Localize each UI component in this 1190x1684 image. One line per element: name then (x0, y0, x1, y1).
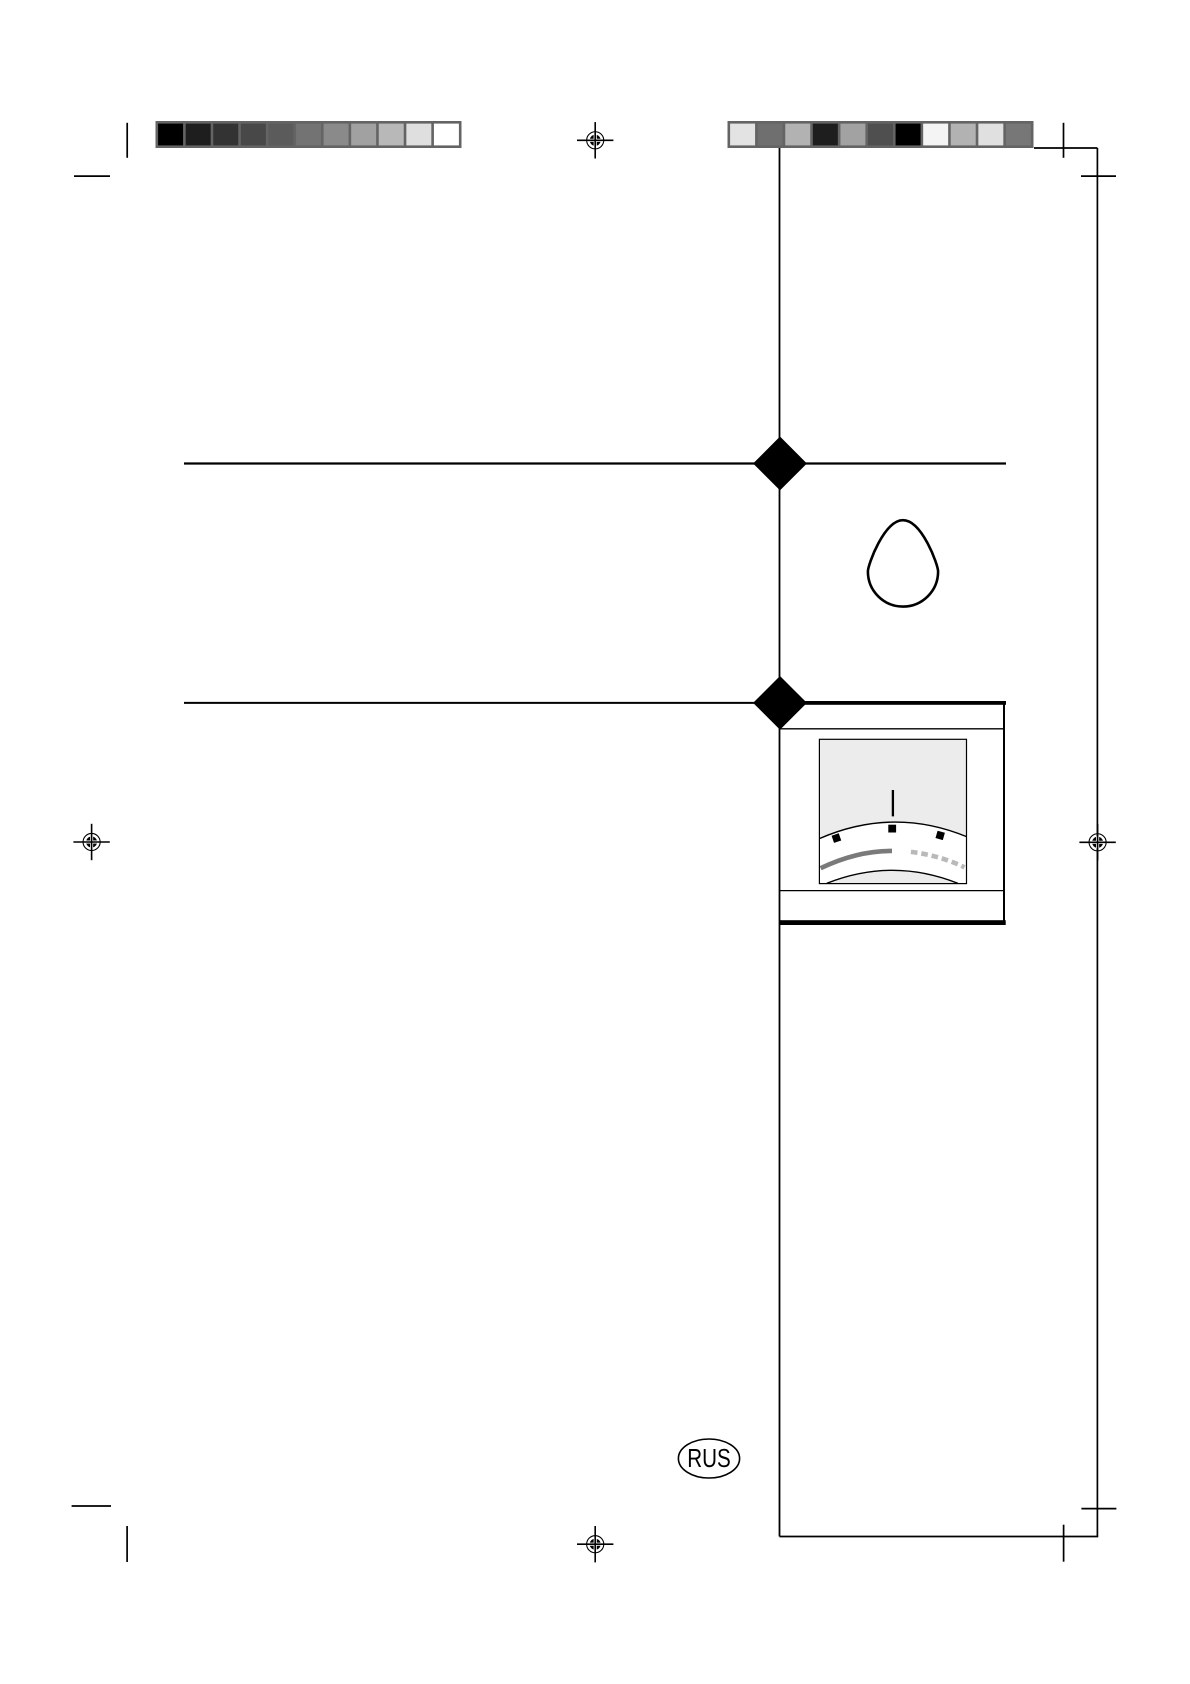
diamond marker 2 (753, 676, 807, 730)
horizontal rule 1 (184, 462, 1006, 464)
left grayscale calibration bar patch 1 (#000000) (158, 124, 183, 146)
left column vertical line (779, 148, 781, 1537)
meter dial lower arc (827, 870, 958, 883)
crop mark bottom-right vertical (1063, 1525, 1065, 1562)
left grayscale calibration bar patch 5 (#5b5b5b) (268, 124, 293, 146)
meter gray solid arc (821, 851, 892, 868)
left grayscale calibration bar patch 4 (#484848) (241, 124, 266, 146)
right grayscale calibration bar frame (728, 121, 1034, 148)
right grayscale calibration bar patch 2 (#6f6f6f) (758, 124, 783, 146)
registration mark left-middle (73, 824, 109, 860)
right grayscale calibration bar patch 4 (#1e1e1e) (813, 124, 838, 146)
bottom page frame horizontal line (780, 1536, 1099, 1538)
RUS language oval (678, 1439, 739, 1478)
registration mark bottom-center (577, 1526, 613, 1562)
left grayscale calibration bar patch 2 (#1e1e1e) (186, 124, 211, 146)
meter box upper separator line (780, 728, 1005, 730)
right grayscale calibration bar patch 11 (#777777) (1006, 124, 1031, 146)
egg / lamp outline (868, 520, 938, 606)
right page frame vertical line (1096, 148, 1098, 1537)
meter box thick bottom edge (779, 920, 1006, 925)
crop mark bottom-left vertical (126, 1526, 128, 1562)
registration mark top-center (577, 122, 613, 158)
crop mark bottom-left horizontal (72, 1505, 111, 1507)
meter dial white zone (819, 822, 966, 883)
left grayscale calibration bar patch 3 (#333333) (213, 124, 238, 146)
right grayscale calibration bar patch 3 (#b2b2b2) (785, 124, 810, 146)
meter dial upper arc (819, 822, 966, 839)
meter box thick top edge (780, 701, 1006, 705)
meter dial lower gray segment (827, 870, 958, 883)
right grayscale calibration bar patch 6 (#4f4f4f) (868, 124, 893, 146)
left grayscale calibration bar patch 7 (#8a8a8a) (324, 124, 349, 146)
meter box right border (1003, 703, 1005, 921)
crop mark bottom-right horizontal (1081, 1508, 1116, 1510)
right grayscale calibration bar patch 10 (#e0e0e0) (978, 124, 1003, 146)
meter tick square middle (888, 825, 896, 833)
right grayscale calibration bar patch 1 (#e3e3e3) (730, 124, 755, 146)
left grayscale calibration bar patch 8 (#a1a1a1) (351, 124, 376, 146)
crop mark top-right horizontal (1081, 175, 1116, 177)
top-right connector line from bar to page frame (1034, 147, 1097, 149)
left grayscale calibration bar patch 9 (#b8b8b8) (379, 124, 404, 146)
diamond marker 1 (753, 437, 807, 491)
meter screen border (819, 739, 966, 883)
meter gray dashed arc (911, 852, 965, 867)
left grayscale calibration bar patch 6 (#737373) (296, 124, 321, 146)
meter needle (892, 790, 894, 816)
crop mark top-left vertical (126, 123, 128, 158)
crop mark top-right vertical (1063, 123, 1065, 158)
meter box lower separator line (780, 890, 1005, 892)
registration mark right-middle (1079, 824, 1115, 860)
svg-text:RUS: RUS (687, 1443, 731, 1473)
left grayscale calibration bar frame (156, 121, 462, 148)
right grayscale calibration bar patch 9 (#b2b2b2) (951, 124, 976, 146)
left grayscale calibration bar patch 11 (#ffffff) (434, 124, 459, 146)
crop mark top-left horizontal (74, 175, 110, 177)
right grayscale calibration bar patch 7 (#000000) (896, 124, 921, 146)
horizontal rule 2 (184, 702, 760, 704)
right grayscale calibration bar patch 8 (#f4f4f4) (923, 124, 948, 146)
meter tick square left (832, 833, 842, 843)
meter tick square right (935, 831, 944, 840)
right grayscale calibration bar patch 5 (#a2a2a2) (840, 124, 865, 146)
left grayscale calibration bar patch 10 (#dfdfdf) (406, 124, 431, 146)
